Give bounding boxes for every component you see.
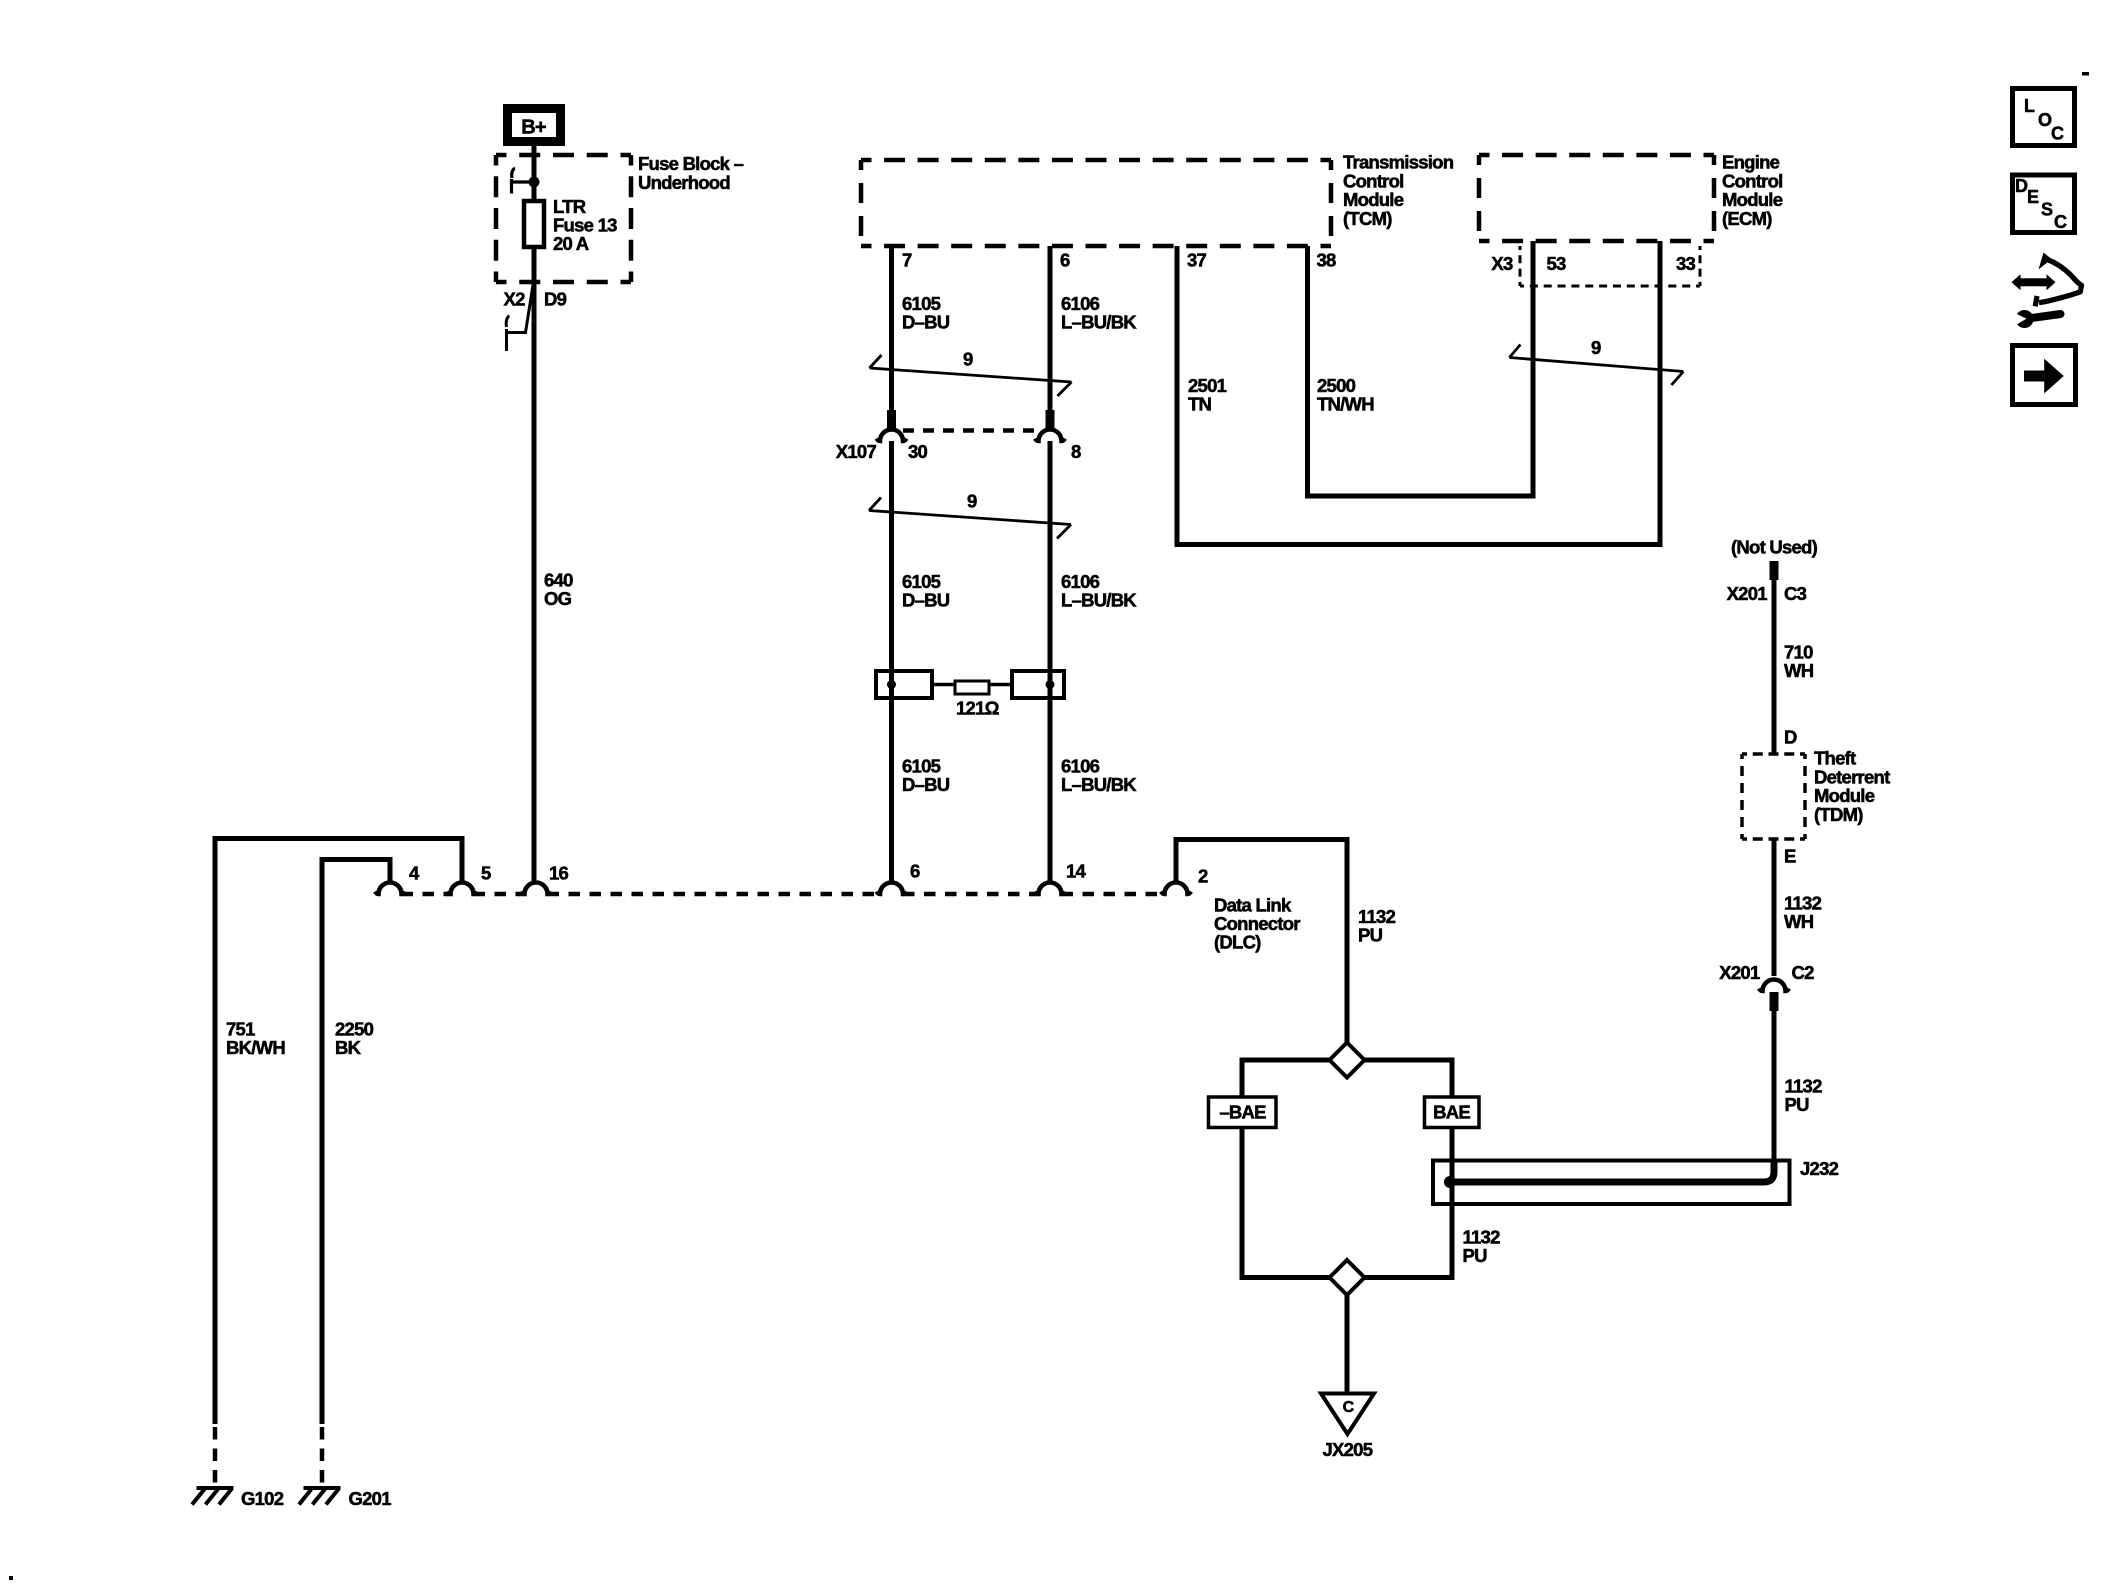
svg-text:BK: BK: [335, 1037, 362, 1058]
svg-text:X2: X2: [504, 289, 526, 310]
svg-text:PU: PU: [1785, 1094, 1810, 1115]
svg-text:7: 7: [902, 250, 912, 271]
svg-text:TN/WH: TN/WH: [1317, 394, 1374, 415]
svg-text:121Ω: 121Ω: [956, 698, 1000, 719]
svg-text:C3: C3: [1784, 583, 1807, 604]
svg-text:G201: G201: [349, 1488, 392, 1509]
svg-text:TN: TN: [1188, 394, 1212, 415]
svg-text:2: 2: [1198, 866, 1208, 887]
svg-text:C2: C2: [1792, 962, 1815, 983]
svg-text:9: 9: [963, 349, 973, 370]
svg-text:9: 9: [1591, 337, 1601, 358]
svg-text:X201: X201: [1727, 583, 1768, 604]
svg-text:L–BU/BK: L–BU/BK: [1061, 590, 1137, 611]
svg-text:(TCM): (TCM): [1343, 208, 1392, 229]
svg-text:Underhood: Underhood: [638, 172, 730, 193]
svg-text:5: 5: [481, 863, 491, 884]
svg-text:C: C: [2054, 212, 2067, 232]
svg-text:–BAE: –BAE: [1219, 1102, 1266, 1123]
svg-text:S: S: [2041, 200, 2053, 220]
svg-text:O: O: [2038, 110, 2052, 130]
svg-text:53: 53: [1547, 253, 1567, 274]
svg-text:E: E: [2027, 187, 2039, 207]
svg-text:PU: PU: [1358, 925, 1383, 946]
svg-text:BK/WH: BK/WH: [226, 1037, 285, 1058]
svg-text:(TDM): (TDM): [1814, 804, 1863, 825]
svg-text:D: D: [1784, 727, 1797, 748]
svg-text:X201: X201: [1719, 962, 1760, 983]
svg-text:9: 9: [967, 491, 977, 512]
svg-text:14: 14: [1066, 861, 1087, 882]
svg-text:30: 30: [908, 441, 928, 462]
svg-text:(Not Used): (Not Used): [1731, 537, 1818, 558]
svg-text:L–BU/BK: L–BU/BK: [1061, 774, 1137, 795]
svg-text:X107: X107: [836, 441, 877, 462]
svg-text:J232: J232: [1800, 1158, 1839, 1179]
svg-text:6: 6: [1060, 250, 1070, 271]
svg-text:D–BU: D–BU: [902, 774, 950, 795]
svg-text:L: L: [2024, 96, 2035, 116]
svg-text:37: 37: [1187, 250, 1207, 271]
svg-text:JX205: JX205: [1323, 1439, 1373, 1460]
svg-text:PU: PU: [1463, 1245, 1488, 1266]
svg-text:20 A: 20 A: [553, 233, 589, 254]
svg-text:4: 4: [409, 863, 420, 884]
svg-text:D–BU: D–BU: [902, 312, 950, 333]
svg-text:OG: OG: [544, 588, 572, 609]
svg-text:8: 8: [1071, 441, 1081, 462]
svg-text:16: 16: [549, 863, 569, 884]
svg-text:(ECM): (ECM): [1722, 208, 1772, 229]
svg-text:B+: B+: [521, 117, 546, 139]
svg-text:C: C: [1343, 1399, 1355, 1416]
svg-text:BAE: BAE: [1433, 1102, 1470, 1123]
svg-text:D9: D9: [544, 289, 567, 310]
svg-text:X3: X3: [1491, 253, 1513, 274]
svg-text:6: 6: [910, 861, 920, 882]
svg-text:L–BU/BK: L–BU/BK: [1061, 312, 1137, 333]
svg-text:D–BU: D–BU: [902, 590, 950, 611]
svg-text:WH: WH: [1784, 660, 1814, 681]
svg-text:E: E: [1784, 846, 1796, 867]
svg-text:(DLC): (DLC): [1214, 932, 1261, 953]
svg-text:G102: G102: [241, 1488, 284, 1509]
svg-text:WH: WH: [1784, 911, 1814, 932]
svg-text:33: 33: [1676, 253, 1696, 274]
svg-text:38: 38: [1317, 250, 1337, 271]
svg-text:C: C: [2051, 124, 2064, 144]
